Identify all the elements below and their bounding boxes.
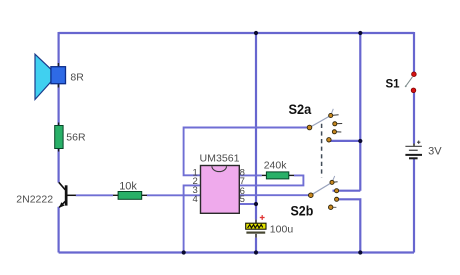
IC U1 UM3561	[201, 166, 240, 214]
junction node pin2 / ground rail	[182, 250, 186, 254]
wire S2a contact4 to rail	[329, 140, 360, 142]
svg-text:4: 4	[193, 194, 198, 205]
svg-text:S2b: S2b	[291, 203, 314, 219]
svg-text:3V: 3V	[428, 146, 442, 158]
battery B1 3V	[405, 141, 422, 159]
wire right branch S1/battery	[413, 32, 415, 253]
wire pin8 to R 240k left	[239, 174, 262, 176]
mechanical link S2 dashed	[321, 124, 323, 177]
wire S2b contact3 to ground	[337, 199, 361, 252]
junction node C1 / ground rail	[254, 250, 258, 254]
svg-text:S2a: S2a	[289, 101, 312, 117]
wire S2 feed from top rail	[359, 33, 361, 191]
svg-text:8R: 8R	[70, 71, 84, 83]
wire Vcc rail to pin5 and C1	[255, 33, 257, 253]
resistor 240k	[262, 172, 294, 179]
wire pin5 to Vcc rail	[239, 203, 256, 205]
junction node top rail / Vcc rail	[254, 31, 258, 35]
wire pin3 to R 10k to Q1 base	[76, 194, 201, 196]
switch S1	[405, 72, 416, 93]
resistor 10k	[113, 192, 147, 200]
wire top rail Vcc	[59, 32, 414, 34]
switch S2b	[309, 176, 339, 210]
wire pin6 to S2b pole	[239, 194, 309, 196]
svg-text:UM3561: UM3561	[200, 153, 240, 165]
junction node S2a contact4 / S2 feed	[358, 139, 362, 143]
junction node pin5 / Vcc rail	[254, 202, 258, 206]
wire S2b contact2 to rail	[333, 190, 361, 192]
junction node top rail / S2 feed	[358, 31, 362, 35]
svg-text:S1: S1	[386, 78, 401, 90]
wire pin1 to S2a pole	[184, 128, 310, 176]
junction node S2b contact3 / ground rail	[358, 250, 362, 254]
switch S2a	[307, 109, 342, 142]
svg-text:5: 5	[240, 194, 245, 205]
wire pin2 to ground	[184, 185, 201, 252]
wire pin7 to R 240k right	[239, 175, 303, 185]
svg-text:10k: 10k	[119, 180, 137, 192]
svg-text:2N2222: 2N2222	[16, 194, 53, 206]
svg-text:100u: 100u	[270, 224, 294, 236]
transistor Q1 2N2222	[59, 182, 76, 208]
wire left branch speaker/56R/Q1	[57, 32, 59, 253]
speaker LS1	[35, 54, 66, 99]
capacitor C1 100u	[246, 215, 266, 238]
svg-text:56R: 56R	[66, 132, 86, 144]
svg-text:240k: 240k	[264, 159, 288, 171]
resistor 56R	[55, 123, 63, 152]
wire bottom rail ground	[59, 251, 414, 253]
